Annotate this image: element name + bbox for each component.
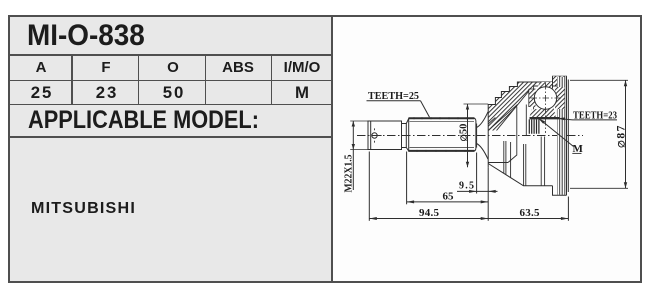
svg-text:65: 65: [443, 191, 455, 203]
ring bottom cap: [553, 186, 567, 195]
header F: [66, 59, 146, 76]
cage box right edge: [556, 86, 558, 115]
ball: [534, 87, 556, 109]
bore bottom line: [488, 136, 517, 163]
ring cap hatch: [553, 76, 567, 88]
ring cap top: [553, 76, 567, 82]
cage left outline: [529, 89, 536, 107]
inner cavity cone lines: [488, 89, 531, 131]
svg-text:63.5: 63.5: [520, 207, 541, 219]
ring left edge: [552, 76, 554, 88]
frame top border: [8, 15, 642, 17]
spline cylinder top edge: [409, 117, 475, 119]
cotter pin hole: [372, 133, 377, 138]
dim M22X1.5 line: [350, 121, 368, 190]
spline cylinder right end: [475, 118, 476, 151]
serration band: [557, 77, 567, 195]
bottom groove lines: [504, 137, 545, 186]
value A 25: [2, 83, 82, 103]
bell bottom exterior profile: [488, 164, 552, 186]
hole center ticks: [367, 128, 381, 142]
svg-text:94.5: 94.5: [419, 207, 440, 219]
cage hatch right of ball: [555, 87, 565, 109]
shaft neck: [402, 124, 407, 148]
header I/M/O: [262, 59, 342, 76]
row line under headers: [8, 80, 332, 82]
spline tooth ticks top: [414, 117, 467, 152]
cage box left edge: [533, 86, 535, 115]
spline cylinder bottom edge: [409, 150, 475, 152]
frame right border: [640, 15, 642, 283]
bell stepped top profile: [488, 82, 552, 105]
drawing panel background: [332, 15, 641, 282]
spline cylinder left end: [408, 118, 410, 152]
spline end runout: [476, 124, 478, 148]
column line 3: [205, 54, 207, 105]
dim dia87: [570, 80, 628, 188]
column line 1: [71, 54, 73, 105]
dim 65: [407, 152, 489, 205]
teeth23 label: [558, 110, 618, 121]
mitsubishi text: [31, 199, 136, 218]
bell wall hatch main band: [488, 82, 540, 131]
M label: [538, 118, 583, 155]
internal spline lines: [529, 119, 539, 133]
title text MI-O-838: [27, 19, 145, 53]
frame bottom border: [8, 281, 642, 283]
taper to spline: [406, 119, 408, 151]
header A: [1, 59, 81, 76]
column line 4: [271, 54, 273, 105]
inner race top line: [530, 117, 560, 119]
centerline axis: [357, 135, 583, 137]
value F 23: [67, 83, 147, 103]
svg-text:∅50: ∅50: [459, 124, 470, 142]
ball crosshair vertical: [545, 83, 547, 133]
applicable model label: [28, 107, 259, 135]
value O 50: [134, 83, 214, 103]
header ABS: [198, 59, 278, 76]
dim 94.5: [369, 152, 488, 221]
frame left border: [8, 15, 10, 283]
boot trumpet bottom: [477, 144, 488, 160]
row line under values: [8, 104, 332, 106]
cage box top edge: [534, 85, 558, 87]
value I/M/O M: [262, 83, 342, 103]
ball crosshair horizontal: [531, 97, 562, 99]
inner race hatch wedge: [530, 108, 557, 118]
ring right face outer: [566, 76, 568, 195]
threaded stud body: [368, 121, 402, 150]
spline root line bottom: [410, 147, 475, 149]
table panel background: [8, 15, 332, 282]
svg-text:M22X1.5: M22X1.5: [344, 155, 355, 193]
column line 2: [138, 54, 140, 105]
row line under title: [8, 54, 332, 56]
panel divider vertical: [331, 15, 333, 282]
bore edge lines: [517, 105, 527, 136]
svg-text:∅87: ∅87: [616, 124, 628, 148]
teeth25 label: [367, 91, 430, 117]
thread chamfer line: [370, 121, 372, 150]
svg-text:9.5: 9.5: [459, 180, 474, 191]
dim dia50: [464, 104, 489, 167]
ring right face second line: [567, 80, 569, 193]
row line under applicable model: [8, 136, 332, 138]
cage hatch left of ball: [529, 89, 536, 107]
header O: [133, 59, 213, 76]
dim 9.5: [457, 153, 498, 194]
dim 63.5: [488, 197, 568, 221]
wall hatch above ball: [536, 82, 552, 90]
bell face edge: [487, 104, 489, 167]
boot trumpet top: [477, 112, 488, 128]
spline root line top: [410, 121, 475, 123]
